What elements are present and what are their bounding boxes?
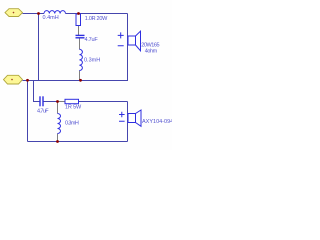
svg-text:AXY104-094: AXY104-094 <box>142 119 172 125</box>
svg-text:4ohm: 4ohm <box>145 49 158 55</box>
svg-text:0.3mH: 0.3mH <box>84 57 100 63</box>
svg-text:4.7uF: 4.7uF <box>37 109 49 115</box>
svg-text:0.4mH: 0.4mH <box>43 15 59 21</box>
svg-text:1.0R 20W: 1.0R 20W <box>85 16 108 22</box>
svg-text:1R 5W: 1R 5W <box>65 104 82 110</box>
svg-text:0.3mH: 0.3mH <box>65 120 79 126</box>
svg-text:4.7uF: 4.7uF <box>85 37 99 43</box>
